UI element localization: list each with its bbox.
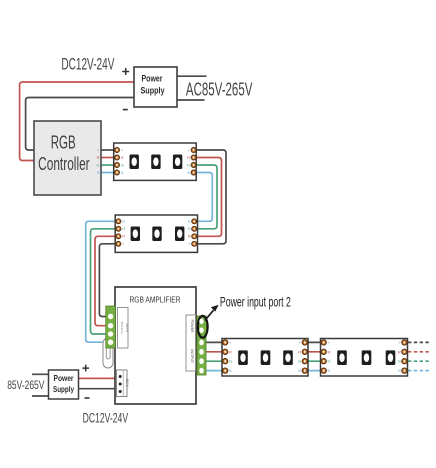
svg-text:R: R [97, 155, 100, 160]
svg-text:Controller: Controller [38, 154, 90, 174]
svg-text:B: B [187, 170, 190, 175]
svg-text:POWER: POWER [190, 320, 194, 333]
svg-text:B: B [328, 368, 331, 373]
svg-text:B: B [121, 170, 124, 175]
svg-text:B: B [188, 219, 191, 224]
svg-text:Supply: Supply [141, 86, 165, 96]
svg-text:RGB: RGB [51, 132, 76, 152]
svg-text:B: B [229, 368, 232, 373]
svg-text:R: R [398, 349, 401, 354]
svg-text:B: B [97, 170, 100, 175]
svg-text:R: R [229, 349, 232, 354]
svg-text:Supply: Supply [53, 384, 74, 394]
svg-text:G: G [187, 162, 190, 167]
svg-text:G: G [328, 359, 331, 364]
svg-text:DC12V-24V: DC12V-24V [61, 54, 114, 73]
svg-text:AC85V-265V: AC85V-265V [186, 79, 253, 99]
svg-text:G: G [96, 162, 99, 167]
svg-text:OUTPUT: OUTPUT [190, 349, 194, 363]
svg-text:Power: Power [142, 74, 163, 84]
svg-text:Power input port 2: Power input port 2 [220, 294, 291, 310]
svg-text:R: R [328, 349, 331, 354]
svg-text:G: G [398, 359, 401, 364]
svg-text:R: R [187, 155, 190, 160]
svg-text:85V-265V: 85V-265V [7, 380, 44, 392]
svg-text:G: G [121, 162, 124, 167]
svg-text:G: G [298, 359, 301, 364]
svg-text:B G R V+: B G R V+ [120, 322, 124, 335]
svg-text:R: R [122, 234, 125, 239]
svg-text:B: B [122, 219, 125, 224]
svg-text:INPUT: INPUT [125, 324, 129, 333]
svg-text:DC-V: DC-V [125, 379, 129, 388]
svg-text:G: G [229, 359, 232, 364]
svg-text:B: B [298, 368, 301, 373]
svg-text:R: R [121, 155, 124, 160]
svg-text:R: R [298, 349, 301, 354]
svg-text:B: B [398, 368, 401, 373]
svg-text:RGB AMPLIFIER: RGB AMPLIFIER [130, 295, 181, 304]
svg-text:R: R [188, 234, 191, 239]
svg-text:Power: Power [54, 373, 75, 383]
svg-text:G: G [122, 226, 125, 231]
svg-text:G: G [187, 226, 190, 231]
svg-text:DC12V-24V: DC12V-24V [83, 410, 129, 425]
